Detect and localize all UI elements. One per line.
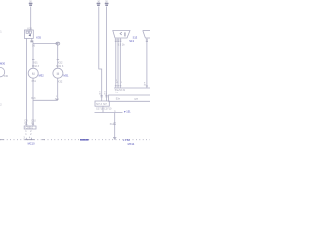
- svg-text:M31: M31: [63, 73, 69, 77]
- svg-text:MC10: MC10: [28, 141, 35, 145]
- svg-text:X31: X31: [31, 80, 36, 83]
- svg-text:M: M: [32, 72, 35, 76]
- svg-text:M30: M30: [0, 62, 6, 66]
- svg-text:MX14: MX14: [128, 142, 135, 146]
- svg-text:K35: K35: [27, 27, 32, 30]
- svg-text:M32 3: M32 3: [32, 65, 40, 68]
- svg-text:S13: S13: [133, 36, 138, 40]
- svg-text:►151: ►151: [124, 109, 131, 113]
- svg-text:X30: X30: [4, 75, 9, 78]
- svg-text:53e: 53e: [116, 97, 121, 100]
- svg-text:X14: X14: [110, 123, 115, 126]
- svg-text:5 3 1b: 5 3 1b: [118, 44, 126, 47]
- svg-text:X31: X31: [33, 61, 38, 64]
- svg-text:S13: S13: [129, 39, 134, 43]
- svg-text:M31 3: M31 3: [56, 65, 64, 68]
- svg-text:M32: M32: [39, 73, 45, 77]
- svg-text:K35: K35: [36, 36, 41, 40]
- svg-text:b a: b a: [116, 92, 119, 94]
- svg-text:M7: M7: [135, 98, 139, 101]
- svg-text:X13: X13: [31, 97, 36, 100]
- svg-text:C0710 C0710: C0710 C0710: [96, 108, 112, 111]
- svg-text:M: M: [57, 72, 60, 76]
- svg-text:X32: X32: [58, 61, 63, 64]
- svg-text:M7.3 M7: M7.3 M7: [96, 103, 107, 106]
- svg-text:X32: X32: [58, 80, 63, 83]
